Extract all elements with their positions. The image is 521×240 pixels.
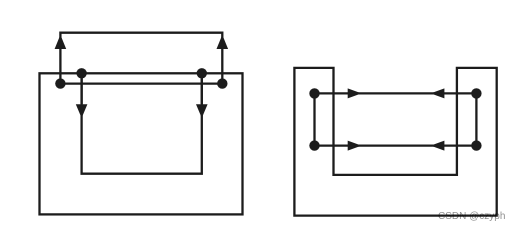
arrow right upper bar xyxy=(348,88,362,98)
wire chord between node A and node D xyxy=(60,82,222,84)
node C xyxy=(197,68,207,78)
wire left connector xyxy=(313,93,315,145)
wire lower bar xyxy=(315,144,477,146)
node A xyxy=(55,78,65,88)
left core outer rectangle xyxy=(40,73,243,214)
arrow down right inner xyxy=(196,104,208,118)
wire right connector xyxy=(475,93,477,145)
arrow left lower bar xyxy=(431,141,445,151)
node H xyxy=(471,140,481,150)
wire left inner riser xyxy=(80,73,82,104)
arrow right lower bar xyxy=(348,141,362,151)
svg-text:CSDN @czyph: CSDN @czyph xyxy=(438,211,505,222)
arrow down left inner xyxy=(76,104,88,118)
left core inner U slot xyxy=(82,73,202,173)
arrow up left loop xyxy=(55,35,67,49)
node D xyxy=(217,78,227,88)
node G xyxy=(309,140,319,150)
node E xyxy=(309,88,319,98)
arrow up right loop xyxy=(217,35,229,49)
right core U-channel outline xyxy=(294,68,496,216)
wire upper bar xyxy=(315,92,477,94)
node F xyxy=(471,88,481,98)
wire top loop xyxy=(60,33,222,84)
node B xyxy=(76,68,86,78)
arrow left upper bar xyxy=(431,88,445,98)
wire right inner riser xyxy=(201,73,203,104)
